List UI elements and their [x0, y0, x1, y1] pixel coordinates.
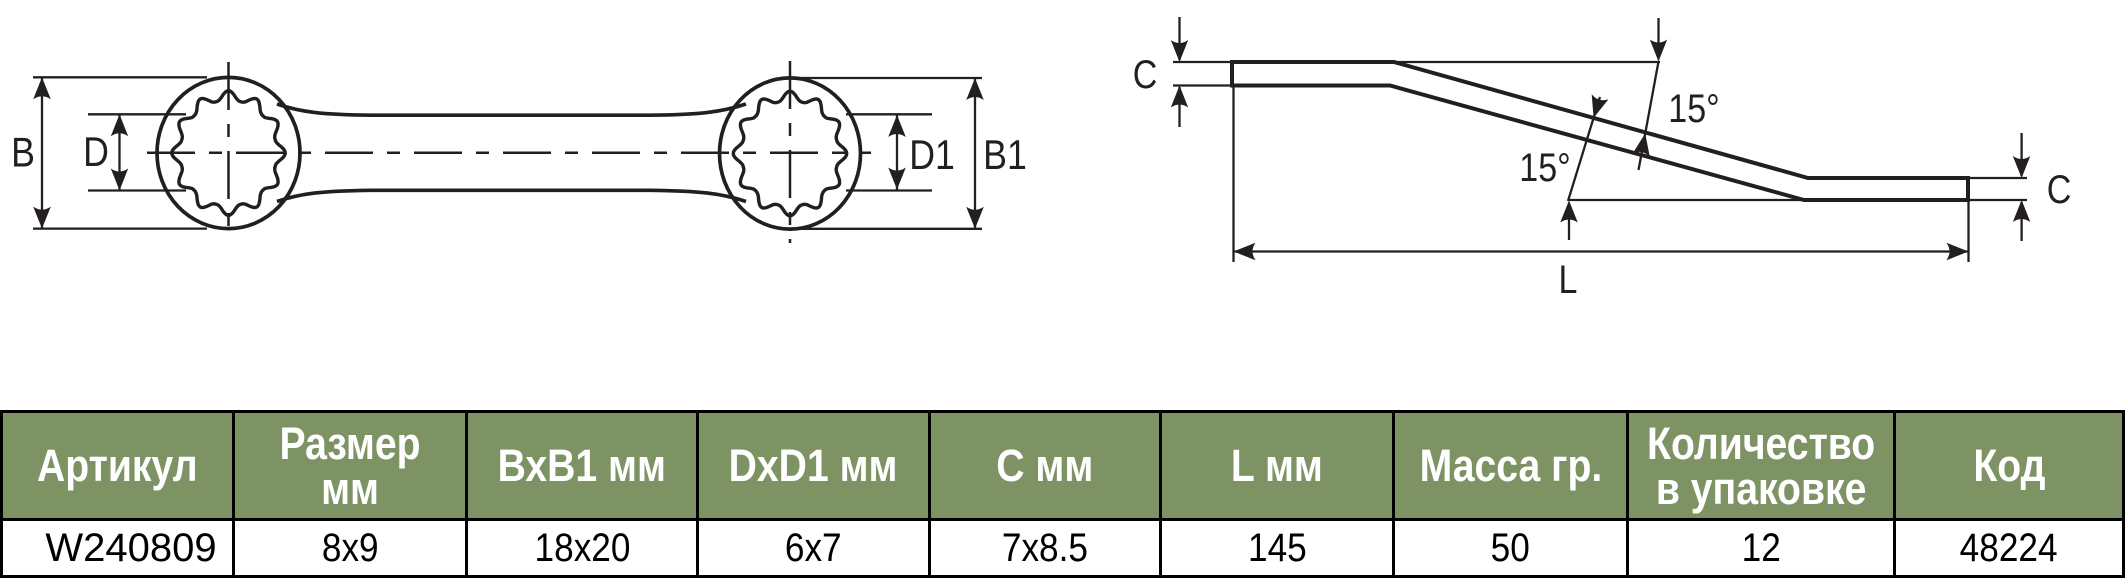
svg-text:B1: B1 — [983, 132, 1027, 178]
svg-text:C: C — [1133, 51, 1158, 96]
svg-text:15°: 15° — [1519, 144, 1570, 189]
svg-text:L: L — [1559, 256, 1578, 301]
svg-text:B: B — [11, 130, 35, 176]
svg-text:15°: 15° — [1668, 85, 1719, 130]
svg-text:D1: D1 — [909, 132, 955, 178]
svg-text:D: D — [83, 129, 109, 175]
svg-text:C: C — [2047, 166, 2072, 211]
